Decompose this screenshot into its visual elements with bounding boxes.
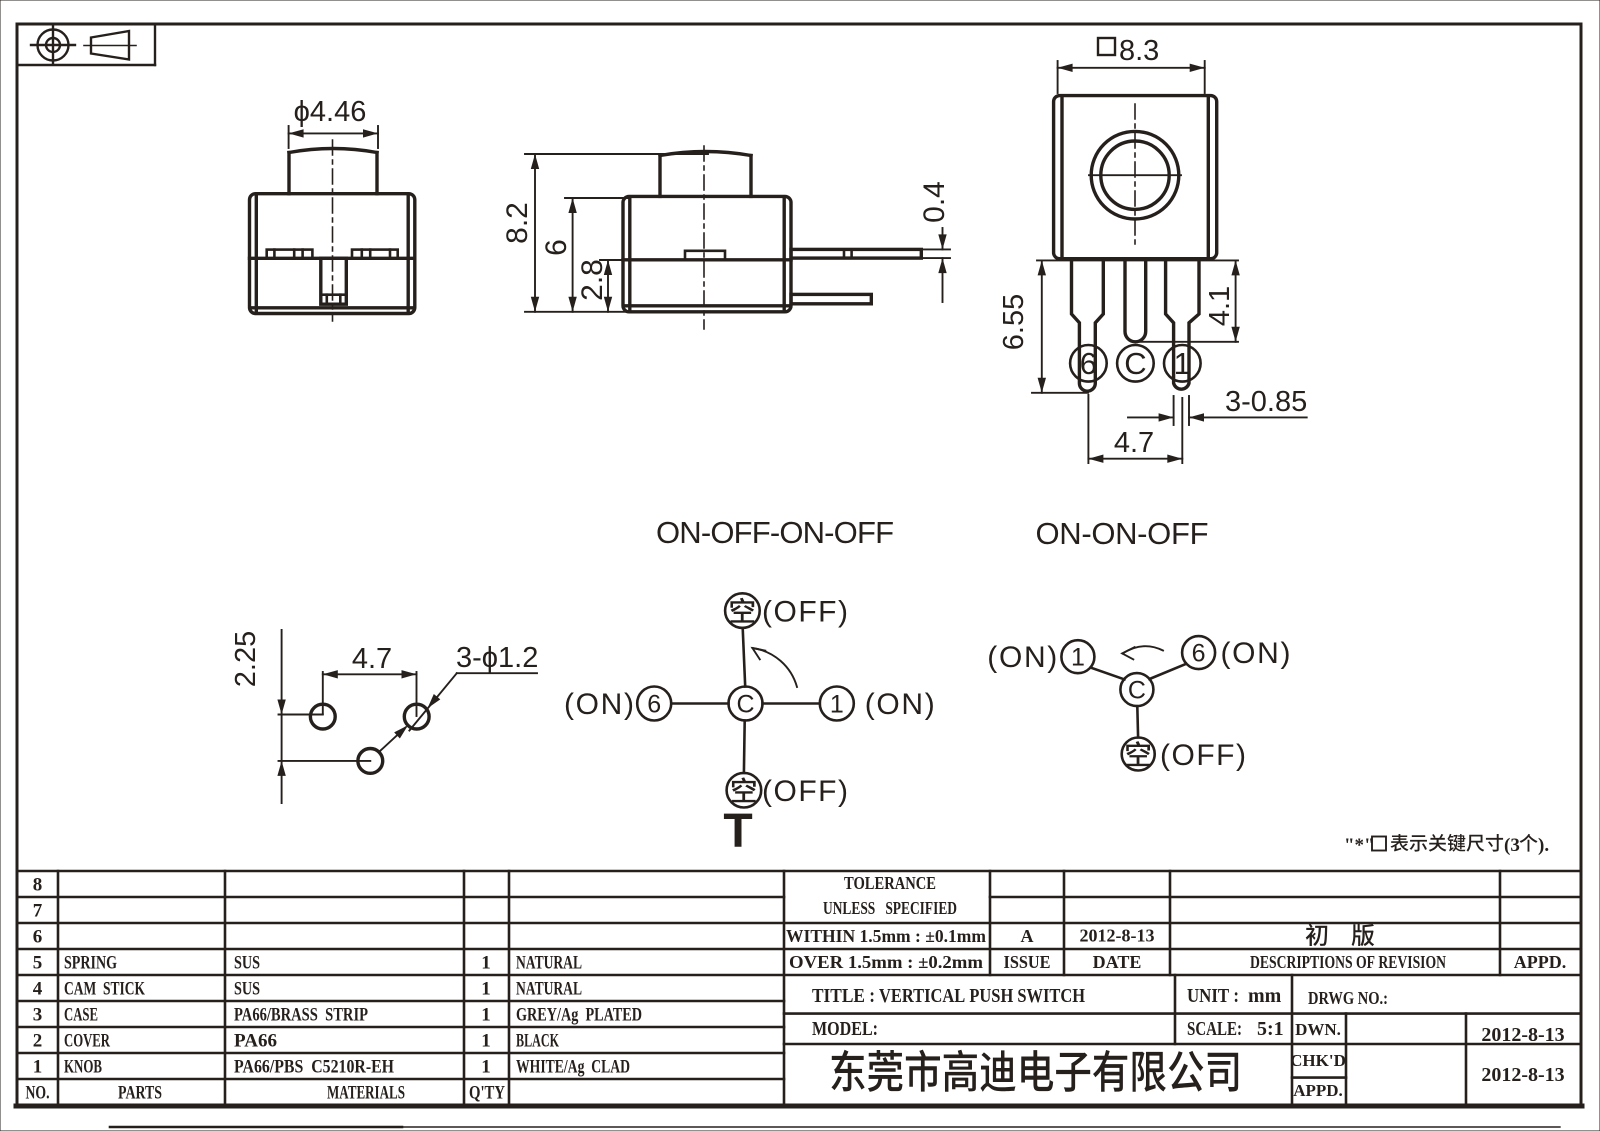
svg-text:SCALE:: SCALE: <box>1187 1018 1242 1040</box>
svg-text:"*": "*" <box>1344 835 1375 856</box>
svg-text:6: 6 <box>1080 346 1097 381</box>
svg-text:1: 1 <box>33 1057 43 1078</box>
svg-text:(OFF): (OFF) <box>1160 739 1246 772</box>
dimension 4.7 extension lines (pcb) <box>322 672 324 714</box>
diagram1: node 1 right circle <box>820 687 854 721</box>
svg-text:4: 4 <box>33 979 43 1000</box>
pcb layout: hole bottom <box>358 749 383 774</box>
svg-text:WHITE/Ag CLAD: WHITE/Ag CLAD <box>516 1057 630 1078</box>
svg-text:GREY/Ag PLATED: GREY/Ag PLATED <box>516 1005 642 1026</box>
dimension 0.4 extension lines <box>923 248 950 250</box>
svg-text:COVER: COVER <box>64 1031 110 1052</box>
diagram1: wire left <box>671 702 728 705</box>
pcb layout: upper hole center line <box>279 714 323 716</box>
diagram1: node OFF top circle <box>725 593 760 628</box>
diagram2: node 1 circle <box>1061 640 1094 673</box>
svg-text:PA66/BRASS STRIP: PA66/BRASS STRIP <box>234 1005 368 1026</box>
diagram2: rotation arrow arc <box>1123 646 1164 653</box>
svg-text:2012-8-13: 2012-8-13 <box>1481 1024 1564 1046</box>
title row text <box>812 985 1565 1100</box>
dimension 8.3 extension lines <box>1057 61 1059 93</box>
dimension 8.2 line <box>534 154 536 312</box>
svg-text:8.3: 8.3 <box>1119 35 1159 67</box>
front view: body outline <box>250 194 415 314</box>
dimension 3-phi1.2 leader line <box>457 672 537 674</box>
svg-text:DWN.: DWN. <box>1295 1020 1341 1039</box>
svg-text:PARTS: PARTS <box>118 1083 162 1104</box>
svg-text:1: 1 <box>481 1005 491 1026</box>
table: vertical grid lines <box>58 871 1500 1105</box>
side view: body inner wall left <box>628 198 631 310</box>
svg-text:(ON): (ON) <box>987 641 1057 674</box>
svg-text:ON-ON-OFF: ON-ON-OFF <box>1036 516 1209 551</box>
svg-text:T: T <box>723 805 752 858</box>
svg-text:PA66: PA66 <box>234 1031 277 1052</box>
dimension 6 extension line <box>565 197 629 199</box>
svg-text:6: 6 <box>33 927 43 948</box>
svg-text:1: 1 <box>1071 644 1085 672</box>
svg-text:2012-8-13: 2012-8-13 <box>1481 1064 1564 1086</box>
svg-text:KNOB: KNOB <box>64 1057 102 1078</box>
top view: pin 1 outline <box>1166 259 1199 389</box>
diagram1: node OFF bottom circle <box>727 773 762 808</box>
dimension 4.7 line (pcb) <box>323 673 417 675</box>
top view: pin C outline <box>1125 259 1146 342</box>
pcb layout: hole top right <box>404 704 429 729</box>
dimension 4.1 line <box>1235 260 1237 341</box>
dimension 0.4 lines and arrows <box>942 228 944 249</box>
svg-text:3: 3 <box>33 1005 43 1026</box>
side view: upper pin <box>791 249 921 258</box>
diagram1: node C center circle <box>729 687 763 721</box>
dimension 3-0.85 lines <box>1128 416 1174 418</box>
diagram1: rotation arrow arc <box>753 648 798 687</box>
dimension 2.8 line <box>607 260 609 312</box>
svg-text:5: 5 <box>33 953 43 974</box>
front view: body inner bottom line <box>251 306 414 309</box>
revision block text <box>1004 926 1567 973</box>
top view: body inner wall right <box>1207 97 1210 258</box>
svg-text:4.1: 4.1 <box>1204 286 1236 326</box>
svg-text:DRWG NO.:: DRWG NO.: <box>1308 988 1388 1008</box>
dimension phi4.46 line <box>289 132 378 134</box>
side view: body inner wall right <box>783 198 786 310</box>
svg-text:1: 1 <box>481 1057 491 1078</box>
svg-text:NATURAL: NATURAL <box>516 979 582 1000</box>
tolerance block text <box>786 873 986 972</box>
front view: right terminal tab <box>352 250 398 259</box>
top view: vertical centerline <box>1134 104 1136 248</box>
svg-text:4.7: 4.7 <box>352 643 392 675</box>
svg-text:2: 2 <box>33 1031 43 1052</box>
dimension 6.55 bottom extension line <box>1032 392 1088 394</box>
dimension phi4.46 extension lines <box>288 126 290 148</box>
side view: body outline <box>623 196 791 311</box>
side view: knob dome <box>660 152 751 156</box>
svg-text:6: 6 <box>647 691 661 719</box>
side view: lower pin <box>791 294 871 303</box>
diagram2: node C circle <box>1120 673 1153 706</box>
svg-text:UNLESS SPECIFIED: UNLESS SPECIFIED <box>823 898 957 918</box>
svg-text:WITHIN 1.5mm : ±0.1mm: WITHIN 1.5mm : ±0.1mm <box>786 926 986 946</box>
top view: pin 6 outline <box>1072 259 1104 391</box>
front view: body inner wall left <box>255 195 258 312</box>
dimension 8.2 extension lines <box>525 153 708 155</box>
svg-text:VERTICAL PUSH SWITCH: VERTICAL PUSH SWITCH <box>879 985 1085 1007</box>
dimension 6.55 line <box>1041 260 1043 392</box>
svg-text:CASE: CASE <box>64 1005 98 1026</box>
diagram2: node OFF circle <box>1122 738 1155 771</box>
dimension square 8.3 text <box>1098 38 1115 55</box>
side view: knob sides <box>658 156 661 197</box>
front view: knob dome <box>289 149 377 153</box>
diagram2: wire C to OFF <box>1136 706 1139 737</box>
top view: pin C label circle <box>1117 345 1154 382</box>
svg-text:8: 8 <box>33 875 43 896</box>
svg-text:6.55: 6.55 <box>998 294 1030 350</box>
svg-text:NO.: NO. <box>26 1083 50 1104</box>
svg-text:1: 1 <box>830 691 844 719</box>
top view: body outline <box>1054 96 1217 259</box>
svg-text:6: 6 <box>540 239 573 256</box>
top view: pin1 edge extension lines <box>1173 396 1175 425</box>
diagram2: wire 6 to C <box>1150 664 1187 679</box>
front view: cover seam line <box>250 257 415 260</box>
front view: vertical centerline <box>332 140 334 321</box>
svg-text:5:1: 5:1 <box>1257 1018 1284 1040</box>
svg-text:C: C <box>1124 346 1146 381</box>
bottom scan artifact line <box>110 1126 402 1129</box>
svg-text:2.25: 2.25 <box>230 631 262 687</box>
top view: pin 1 label circle <box>1164 345 1201 382</box>
pcb layout: lower hole center line <box>279 760 371 762</box>
svg-text:(ON): (ON) <box>564 688 634 721</box>
svg-text:NATURAL: NATURAL <box>516 953 582 974</box>
svg-text:0.4: 0.4 <box>918 181 951 223</box>
svg-text:CHK'D: CHK'D <box>1290 1051 1346 1070</box>
svg-text:mm: mm <box>1248 985 1282 1007</box>
svg-text:UNIT :: UNIT : <box>1187 985 1239 1007</box>
pcb layout: direction arrow between holes <box>380 728 406 752</box>
top view: body bottom extension line <box>1037 259 1238 261</box>
svg-text:TITLE :: TITLE : <box>812 985 875 1007</box>
svg-text:OVER 1.5mm : ±0.2mm: OVER 1.5mm : ±0.2mm <box>789 952 983 972</box>
top view: knob outer circle <box>1091 131 1179 219</box>
diagram2: wire 1 to C <box>1091 668 1125 680</box>
dimension 8.3 line <box>1058 67 1205 69</box>
diagram1: wire bottom <box>743 721 746 773</box>
svg-text:APPD.: APPD. <box>1514 952 1567 972</box>
svg-text:A: A <box>1021 926 1034 946</box>
svg-text:PA66/PBS C5210R-EH: PA66/PBS C5210R-EH <box>234 1057 394 1078</box>
svg-text:(ON): (ON) <box>1221 637 1291 670</box>
svg-text:SPRING: SPRING <box>64 953 117 974</box>
front view: center stem <box>321 258 347 304</box>
svg-text:APPD.: APPD. <box>1293 1081 1343 1100</box>
company name glyphs <box>831 1050 1238 1092</box>
dimension 4.7 line (top view) <box>1088 458 1182 460</box>
svg-text:BLACK: BLACK <box>516 1031 559 1052</box>
svg-text:(ON): (ON) <box>865 688 935 721</box>
svg-text:2.8: 2.8 <box>576 259 609 301</box>
svg-text:1: 1 <box>481 1031 491 1052</box>
svg-text:(3: (3 <box>1504 835 1520 856</box>
front view: left terminal tab <box>267 250 313 259</box>
pcb layout: hole left <box>310 704 335 729</box>
svg-text:MODEL:: MODEL: <box>812 1018 878 1040</box>
projection symbol: cone <box>84 31 136 60</box>
dimension 2.25 line <box>281 630 283 803</box>
svg-text:).: ). <box>1538 835 1549 856</box>
diagram2: node 6 circle <box>1182 636 1215 669</box>
diagram1: node 6 left circle <box>637 687 671 721</box>
diagram1: wire right <box>763 702 820 705</box>
front view: knob sides <box>287 153 290 194</box>
side view: vertical centerline <box>703 146 705 329</box>
svg-text:Q'TY: Q'TY <box>469 1083 505 1104</box>
projection symbol: target circle <box>31 26 75 64</box>
revision description: chu ban glyphs <box>1306 924 1328 946</box>
svg-text:8.2: 8.2 <box>501 202 534 244</box>
svg-text:DATE: DATE <box>1093 952 1142 972</box>
side view: seam bump <box>685 251 725 260</box>
svg-text:2012-8-13: 2012-8-13 <box>1080 926 1155 946</box>
svg-text:4.7: 4.7 <box>1114 427 1154 459</box>
dimension 2.8 extension line <box>600 259 624 261</box>
front view: body inner wall right <box>407 195 410 312</box>
svg-text:SUS: SUS <box>234 953 260 974</box>
svg-text:DESCRIPTIONS OF REVISION: DESCRIPTIONS OF REVISION <box>1250 952 1446 972</box>
dimension 6 line <box>572 198 574 312</box>
svg-text:1: 1 <box>481 979 491 1000</box>
svg-text:SUS: SUS <box>234 979 260 1000</box>
dimension 4.1 bottom extension line <box>1137 341 1238 343</box>
table: horizontal grid lines <box>17 871 1581 1079</box>
side view: cover seam line <box>623 258 791 261</box>
svg-text:7: 7 <box>33 901 43 922</box>
svg-text:1: 1 <box>1174 346 1191 381</box>
side view: body inner bottom line <box>625 304 790 307</box>
svg-text:ON-OFF-ON-OFF: ON-OFF-ON-OFF <box>656 515 894 550</box>
projection symbol box <box>17 64 155 66</box>
svg-text:C: C <box>1128 677 1146 705</box>
svg-text:3-0.85: 3-0.85 <box>1225 386 1307 418</box>
svg-text:ISSUE: ISSUE <box>1004 952 1051 972</box>
diagram1: wire top <box>743 628 746 687</box>
svg-text:MATERIALS: MATERIALS <box>327 1083 405 1104</box>
top view: knob inner circle <box>1101 141 1169 209</box>
top view: pin 6 label circle <box>1070 345 1107 382</box>
svg-text:C: C <box>736 691 754 719</box>
svg-text:CAM STICK: CAM STICK <box>64 979 145 1000</box>
top view: pin centerline extensions <box>1087 395 1089 463</box>
top view: body inner wall left <box>1060 97 1063 258</box>
svg-text:TOLERANCE: TOLERANCE <box>844 873 936 893</box>
svg-text:1: 1 <box>481 953 491 974</box>
svg-text:(OFF): (OFF) <box>762 775 848 808</box>
svg-text:6: 6 <box>1192 640 1206 668</box>
svg-text:ϕ4.46: ϕ4.46 <box>294 96 367 128</box>
svg-text:3-ϕ1.2: 3-ϕ1.2 <box>456 642 538 674</box>
svg-text:(OFF): (OFF) <box>762 596 848 629</box>
top view: horizontal centerline <box>1089 174 1181 176</box>
